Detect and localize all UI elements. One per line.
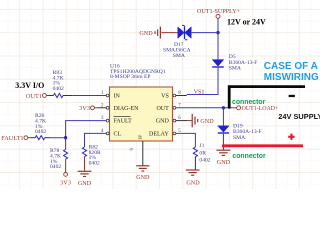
svg-text:0402: 0402 [199,157,210,163]
wire R26 to junction [50,137,66,139]
label 24V SUPPLY [278,112,320,121]
svg-text:0402: 0402 [35,129,46,135]
port FAULT1 [1,135,30,142]
svg-text:0R: 0R [199,150,206,156]
ground right of pin6 (sideways) [192,114,198,128]
minus terminal [289,95,295,97]
svg-text:EP: EP [137,134,142,140]
pin7 wire OUT to junction [176,107,232,109]
svg-text:DIAG-EN: DIAG-EN [114,106,140,112]
svg-text:OUT1: OUT1 [26,93,42,100]
svg-text:FAULT: FAULT [114,119,133,125]
svg-text:connector: connector [232,153,266,160]
TVS diode D17 [178,25,191,39]
net label VS1 [194,89,205,95]
miswired positive wire (thick red) [222,144,303,147]
IC U1 U16 body [110,87,173,141]
svg-text:GND: GND [139,31,153,37]
label 12V or 24V [227,17,266,26]
svg-text:3V3: 3V3 [60,180,71,187]
svg-text:24V SUPPLY: 24V SUPPLY [278,112,320,121]
value label D17 [163,42,191,59]
svg-text:3V3: 3V3 [79,105,90,112]
plus terminal [288,134,294,140]
ground below J1 [186,170,200,175]
value label J1 [199,143,210,163]
svg-text:0402: 0402 [53,86,64,92]
label GND (EP) [136,175,150,181]
svg-text:3.3V I/O: 3.3V I/O [15,81,44,90]
pin bubbles left [106,94,109,135]
value label D5 [229,54,258,71]
label GND (D19) [217,160,231,166]
svg-text:MISWIRING: MISWIRING [264,72,319,83]
svg-text:SMA: SMA [229,65,241,71]
wire R83 to pin1 [72,95,106,97]
resistor R82 [82,147,86,171]
junction at D17 [216,31,219,34]
resistor R78 [63,138,67,173]
miswired negative wire (thick black) [229,87,305,109]
wire EP to ground [142,141,144,165]
junction OUT node [222,106,225,109]
port 3V3 (pin2) [79,105,98,112]
label connector (bottom) [232,153,266,160]
svg-text:GND: GND [200,119,214,125]
label GND (D17) [139,31,153,37]
svg-text:8-MSOP 3mm EP: 8-MSOP 3mm EP [110,74,151,80]
label U16 [110,64,166,81]
svg-text:J1: J1 [199,143,204,149]
wire supply down to D5 [217,18,219,59]
label GND (R82) [78,181,92,187]
pin names left [114,94,140,138]
wire junction to D17 [192,32,218,34]
svg-text:connector: connector [232,99,266,106]
svg-text:CASE OF A: CASE OF A [264,61,318,72]
value label R26 [35,113,46,135]
wire junction down to D19 [222,108,224,126]
svg-text:0402: 0402 [50,164,61,170]
svg-text:SMA: SMA [233,135,245,141]
svg-text:OUT1-LOAD+: OUT1-LOAD+ [242,106,279,112]
pin numbers left [101,91,104,134]
svg-text:SMA: SMA [173,53,185,59]
pin6 lead to ground [176,120,192,122]
label GND (J1) [186,180,200,186]
port 3V3 (below R78) [60,173,71,187]
wire D19 to ground [222,134,224,150]
svg-text:CL: CL [114,132,122,138]
svg-text:IN: IN [114,94,121,100]
label connector (top) [232,99,266,106]
overline FAULT [114,116,131,118]
pin bubbles right [173,94,176,135]
svg-text:GND: GND [217,160,231,166]
pin 9 EP pad [130,134,143,151]
svg-text:12V or 24V: 12V or 24V [227,17,266,26]
diode D19 [218,126,229,133]
port OUT1 [26,93,49,100]
diode D5 [212,60,224,67]
value label R83 [53,70,64,92]
ground below D19 [216,150,230,155]
wire D17 to ground [162,32,178,34]
ground below EP [136,166,149,171]
pin8 lead [176,95,187,97]
ground below R82 [78,171,92,176]
label GND (pin6) [200,119,214,125]
wire 3V3 to pin2 [98,107,106,109]
svg-text:GND: GND [136,175,150,181]
wire pin4 to R82 [85,133,107,147]
resistor R26 [30,136,50,140]
svg-text:VS: VS [161,94,169,100]
pin numbers right [178,91,181,134]
ground left of D17 (sideways) [155,27,160,39]
svg-text:GND: GND [186,180,200,186]
pin names right [149,94,169,138]
wire pin3 to FAULT junction [66,121,107,138]
svg-text:0402: 0402 [89,160,100,166]
port OUT1-SUPPLY+ [197,9,241,18]
resistor R1 R83 [49,93,73,97]
svg-text:GND: GND [78,181,92,187]
label CASE OF A MISWIRING [264,61,319,83]
resistor J1 [193,147,197,169]
svg-text:VS1: VS1 [194,89,205,95]
wire pin5 to J1 [176,133,196,147]
wire D5 to VS corner [187,68,218,95]
value label R78 [50,148,61,170]
label 3.3V I/O [15,81,44,90]
value label R82 [89,145,101,167]
value label D19 [233,124,262,141]
junction FAULT node [64,136,67,139]
svg-text:GND: GND [156,119,170,125]
svg-text:FAULT1: FAULT1 [1,135,23,142]
port OUT1-LOAD+ [232,106,279,112]
svg-text:DELAY: DELAY [149,132,169,138]
svg-text:OUT: OUT [156,106,169,112]
